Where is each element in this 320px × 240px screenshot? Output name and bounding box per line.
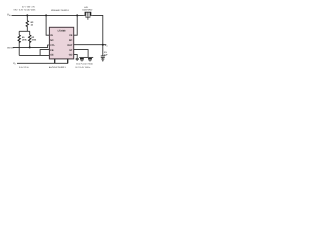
wire rail down to right pin1 bbox=[74, 15, 77, 35]
svg-text:VS: VS bbox=[69, 34, 73, 37]
node junction dot B bbox=[29, 46, 31, 48]
wire divider bus bbox=[19, 30, 30, 32]
node junction dot A bbox=[26, 14, 28, 16]
svg-text:3V < VIN < 8V: 3V < VIN < 8V bbox=[22, 5, 35, 8]
svg-text:0V TO 4V TA01a: 0V TO 4V TA01a bbox=[75, 66, 91, 69]
svg-text:NC: NC bbox=[69, 39, 73, 42]
svg-text:CTL: CTL bbox=[50, 44, 55, 47]
svg-text:MMSF3P02: MMSF3P02 bbox=[82, 9, 92, 12]
node junction dot C bbox=[45, 14, 47, 16]
svg-text:IN: IN bbox=[50, 34, 53, 37]
wire rail to R3 bbox=[26, 15, 28, 20]
resistor R3 bbox=[26, 21, 28, 27]
wire left branch down to bottom bus bbox=[18, 42, 20, 56]
svg-text:LT3468: LT3468 bbox=[58, 30, 66, 33]
svg-text:BACKUP SUPPLY: BACKUP SUPPLY bbox=[49, 66, 67, 69]
svg-text:GND PLANE REQD: GND PLANE REQD bbox=[76, 63, 94, 66]
wire CTL from ON/OFF bbox=[13, 45, 49, 47]
wire VOUT down to C1 bbox=[102, 45, 104, 56]
svg-text:GD: GD bbox=[69, 53, 73, 56]
node junction dot VOUT bbox=[102, 44, 104, 46]
wire backup supply rail bbox=[17, 62, 68, 64]
svg-text:2.5V TO 5V: 2.5V TO 5V bbox=[19, 66, 30, 69]
wire R3 to divider bus bbox=[26, 27, 28, 32]
svg-text:FB: FB bbox=[50, 49, 53, 52]
ground for C1 bbox=[101, 59, 104, 61]
capacitor C1 bbox=[101, 56, 105, 58]
svg-text:OUT: OUT bbox=[67, 44, 73, 47]
ground G2 bbox=[80, 59, 84, 60]
wire rail down to pin1 bbox=[46, 15, 49, 35]
node junction dot D bbox=[76, 14, 78, 16]
background bbox=[0, 0, 120, 81]
wire GD pin down bbox=[74, 55, 77, 59]
ground G3 bbox=[88, 59, 92, 60]
svg-text:ON/OFF: ON/OFF bbox=[7, 46, 16, 49]
svg-text:MP1: MP1 bbox=[84, 6, 88, 9]
ground small bbox=[76, 58, 79, 59]
svg-text:SS: SS bbox=[50, 54, 54, 57]
svg-text:PRIMARY SUPPLY: PRIMARY SUPPLY bbox=[51, 9, 70, 12]
wire left branch top bbox=[18, 31, 20, 35]
wire stub chip bottom pin 2 bbox=[67, 59, 69, 64]
svg-text:NC: NC bbox=[50, 39, 54, 42]
wire ST pin to ground bus bbox=[74, 50, 88, 58]
wire drain to output corner bbox=[92, 15, 102, 44]
transistor Q1 bbox=[84, 12, 93, 15]
resistor R1 bbox=[18, 35, 20, 43]
resistor R2 bbox=[29, 35, 31, 43]
wire ground bus right bbox=[79, 56, 93, 58]
svg-text:ST: ST bbox=[69, 49, 73, 52]
wire right branch to CTL wire bbox=[29, 42, 31, 48]
wire top rail bbox=[12, 14, 84, 16]
wire pin4 to bottom bus bbox=[40, 50, 49, 56]
svg-text:VIN + 0.3V TO 16V MAX: VIN + 0.3V TO 16V MAX bbox=[13, 9, 36, 12]
wire right branch top bbox=[29, 31, 31, 35]
IC U1 bbox=[49, 27, 73, 59]
wire stub chip bottom pin 1 bbox=[54, 59, 56, 64]
wire OUT pin to VOUT node bbox=[74, 44, 106, 46]
wire bottom bus bbox=[19, 54, 49, 56]
wire gate stub bbox=[87, 17, 89, 20]
